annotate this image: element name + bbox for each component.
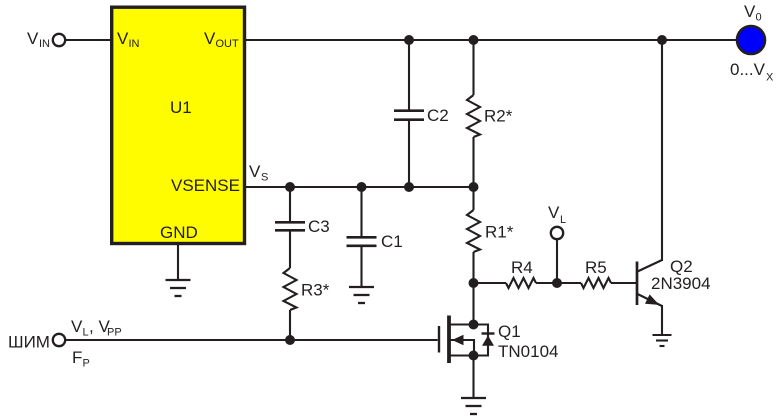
wire C1 lower lead	[360, 247, 362, 288]
svg-text:C3: C3	[308, 217, 330, 236]
node VL	[552, 278, 562, 288]
wire R3 lower lead	[289, 310, 291, 340]
wire R2 upper lead	[472, 40, 474, 95]
node VSENSE-C2	[404, 182, 414, 192]
wire Q1 source down	[472, 356, 474, 399]
resistor R3	[284, 268, 297, 310]
wire VSENSE rail	[245, 186, 474, 188]
node VOUT-C2	[404, 35, 414, 45]
svg-text:V: V	[548, 203, 560, 222]
wire Q1 drain stub	[451, 323, 474, 325]
resistor R5	[581, 278, 611, 288]
label VIN terminal	[27, 29, 50, 50]
svg-text:C2: C2	[427, 106, 449, 125]
wire R1 upper lead	[472, 187, 474, 210]
wire C3 upper lead	[289, 187, 291, 222]
node VSENSE-C1	[357, 182, 367, 192]
svg-text:R5: R5	[585, 258, 607, 277]
svg-text:V: V	[249, 162, 261, 181]
svg-text:P: P	[83, 358, 90, 370]
svg-text:V: V	[117, 29, 129, 48]
ground Q2	[653, 335, 672, 346]
wire Q1 body stub	[451, 340, 475, 356]
label 0...VX	[730, 60, 774, 84]
svg-text:R4: R4	[511, 258, 533, 277]
wire R1 lower lead	[472, 252, 474, 283]
wire Q1 drain up	[472, 283, 474, 325]
wire R2 lower lead	[472, 137, 474, 187]
svg-text:R3*: R3*	[301, 281, 330, 300]
svg-text:IN: IN	[39, 38, 50, 50]
node Q1 drain	[469, 320, 479, 330]
label U1 pin VIN	[117, 29, 140, 50]
svg-text:L: L	[560, 214, 566, 226]
wire SHIM to Q1 gate	[66, 339, 438, 341]
wire VL lead	[556, 240, 558, 283]
op-amp U1 (regulator block)	[112, 7, 245, 243]
label FP	[72, 348, 90, 370]
svg-text:L: L	[83, 327, 89, 339]
svg-text:OUT: OUT	[216, 38, 240, 50]
wire Q2 emitter diagonal	[638, 294, 663, 306]
node R1-R4-drain	[469, 278, 479, 288]
svg-text:GND: GND	[160, 223, 198, 242]
node Q1 source	[469, 351, 479, 361]
terminal SHIM circle	[53, 334, 65, 346]
transistor Q2 base bar	[636, 262, 639, 306]
wire Q2 collector up	[661, 40, 663, 261]
svg-text:V: V	[71, 317, 83, 336]
capacitor C3	[275, 222, 305, 230]
svg-text:ШИМ: ШИМ	[8, 333, 50, 352]
label VL VPP	[71, 317, 122, 339]
capacitor C1	[347, 237, 377, 246]
diode Q1 body triangle	[482, 336, 494, 346]
svg-text:R2*: R2*	[484, 107, 513, 126]
svg-text:R1*: R1*	[485, 223, 514, 242]
node VOUT-Q2 collector	[657, 35, 667, 45]
svg-text:Q1: Q1	[498, 322, 521, 341]
node VOUT-R2	[469, 35, 479, 45]
svg-text:V: V	[744, 2, 756, 21]
resistor R2	[467, 95, 480, 137]
diode Q1 body cathode bar	[482, 332, 495, 334]
svg-text:IN: IN	[129, 38, 140, 50]
svg-text:0: 0	[756, 12, 762, 24]
wire C3 to R3	[289, 231, 291, 268]
svg-text:C1: C1	[381, 232, 403, 251]
wire C1 upper lead	[360, 187, 362, 237]
svg-text:VSENSE: VSENSE	[171, 176, 240, 195]
label VL	[548, 203, 566, 226]
wire Q1 source stub	[451, 354, 474, 356]
wire C2 upper lead	[408, 40, 410, 110]
wire Q2 collector diagonal	[638, 260, 663, 272]
resistor R4	[506, 278, 536, 288]
terminal VL circle	[551, 227, 563, 239]
resistor R1	[467, 210, 480, 252]
svg-text:PP: PP	[107, 327, 122, 339]
label V0	[744, 2, 762, 24]
transistor Q1 gate bar	[438, 326, 440, 353]
node R3-gate	[285, 335, 295, 345]
wire R4 to R5	[536, 282, 581, 284]
wire Q2 emitter down	[661, 305, 663, 335]
ground Q1	[461, 398, 486, 414]
capacitor C2	[394, 111, 424, 120]
wire C2 lower lead	[408, 120, 410, 187]
svg-text:V: V	[204, 29, 216, 48]
wire node to R4	[474, 282, 507, 284]
wire Q1 body diode loop	[474, 325, 489, 356]
terminal V0 blue circle	[737, 26, 765, 54]
wire VOUT top rail	[246, 39, 737, 41]
node VSENSE-R1	[469, 182, 479, 192]
terminal VIN circle	[53, 34, 65, 46]
transistor Q1 body arrow	[452, 335, 464, 346]
svg-text:F: F	[72, 348, 82, 367]
svg-text:U1: U1	[170, 98, 192, 117]
svg-text:V: V	[27, 29, 39, 48]
wire R5 to Q2 base	[611, 282, 636, 284]
svg-text:2N3904: 2N3904	[651, 274, 711, 293]
label U1 pin VOUT	[204, 29, 239, 50]
transistor Q1 channel bar	[447, 316, 451, 364]
svg-text:0...V: 0...V	[730, 60, 766, 79]
ground U1	[166, 280, 191, 296]
node VSENSE-C3	[285, 182, 295, 192]
label VS	[249, 162, 268, 184]
svg-text:X: X	[766, 72, 774, 84]
svg-text:TN0104: TN0104	[498, 342, 558, 361]
wire VIN to U1	[66, 39, 110, 41]
transistor Q2 emitter arrow	[645, 294, 659, 305]
ground C1	[349, 287, 374, 303]
ground U1 GND pin wire	[177, 244, 179, 280]
svg-text:S: S	[261, 172, 268, 184]
